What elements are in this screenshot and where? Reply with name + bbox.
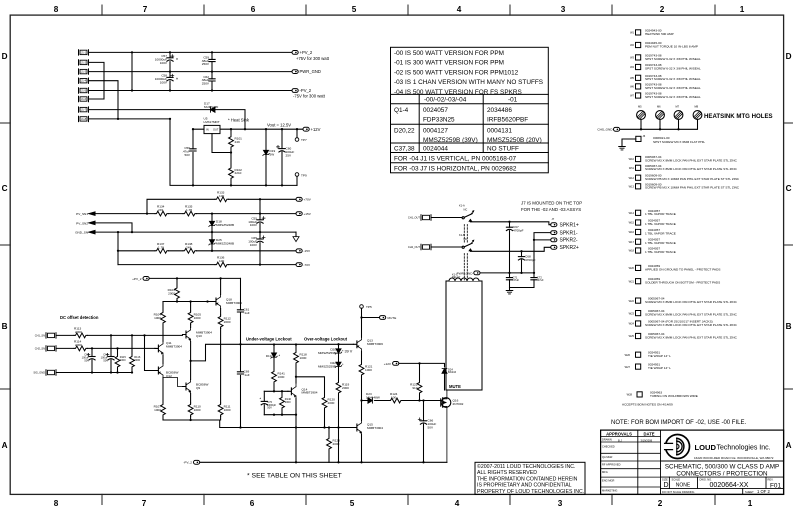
under-voltage sense line (192, 344, 354, 361)
svg-text:D: D (664, 482, 669, 489)
svg-text:PWR_GND: PWR_GND (300, 69, 321, 74)
svg-text:IS PROPRIETARY AND CONFIDENTIA: IS PROPRIETARY AND CONFIDENTIAL (477, 483, 572, 489)
svg-text:TP7: TP7 (301, 138, 307, 142)
svg-text:-03 IS 1 CHAN VERSION WITH MAN: -03 IS 1 CHAN VERSION WITH MANY NO STUFF… (394, 79, 543, 86)
svg-text:2: 2 (658, 499, 663, 508)
checkbox item W3 (636, 55, 641, 60)
test point TP9 (295, 173, 299, 177)
svg-text:SCREW PB M3 X 10MM PAN PHIL EX: SCREW PB M3 X 10MM PAN PHIL EXT STAR PLA… (645, 177, 740, 181)
svg-text:PWR_GND: PWR_GND (457, 271, 474, 275)
svg-text:.1uF: .1uF (244, 373, 250, 377)
svg-text:.1uF: .1uF (244, 311, 250, 315)
resistor R110 (190, 394, 192, 421)
svg-text:SCALE: SCALE (672, 477, 681, 481)
capacitor C64 (110, 335, 112, 372)
capacitor C59 (211, 52, 213, 71)
svg-text:8: 8 (54, 5, 59, 14)
checkbox item W11 (636, 165, 641, 170)
svg-text:SCREW M3 X 8MM LOCK PAN PHIL E: SCREW M3 X 8MM LOCK PAN PHIL EXT STAR PL… (645, 335, 738, 339)
svg-text:SIZE: SIZE (662, 477, 668, 481)
MOSFET Q16 (441, 398, 451, 408)
wire pin1 to +PV_2 (89, 51, 293, 53)
svg-text:1000: 1000 (278, 375, 285, 379)
svg-text:2000: 2000 (342, 386, 349, 390)
svg-text:MMSZ5259B: MMSZ5259B (318, 364, 336, 368)
checkbox item W16 (636, 229, 641, 234)
svg-text:RF APPROVED: RF APPROVED (602, 462, 621, 466)
negative rail (163, 420, 353, 428)
node SIG_GND input (46, 370, 56, 375)
svg-text:SCREW M3 X 8MM LOCK PAN PHIL E: SCREW M3 X 8MM LOCK PAN PHIL EXT STAR PL… (645, 167, 738, 171)
transistor Q15 (353, 421, 361, 435)
bias node (163, 301, 213, 303)
svg-text:ALL RIGHTS RESERVED: ALL RIGHTS RESERVED (477, 470, 537, 476)
resistor R115 (117, 348, 119, 372)
checkbox item W27 (636, 364, 641, 369)
wire Q14 base rail (264, 390, 288, 392)
svg-text:SIG_GND: SIG_GND (33, 371, 45, 375)
svg-text:C: C (786, 184, 792, 193)
wire U5 adj (212, 134, 231, 153)
wire diode to rail (215, 110, 245, 130)
wire left drop (117, 232, 119, 265)
relay contact K1-B (462, 246, 464, 248)
node -PV_2 (292, 89, 298, 93)
svg-text:M6: M6 (657, 105, 661, 109)
resistor R140 (281, 391, 283, 414)
connector J1 pin 2 (79, 60, 89, 65)
wire Q11-Q12 (162, 355, 164, 363)
svg-text:APPLIED ON GROUND TO PANEL - P: APPLIED ON GROUND TO PANEL - PROTECT PAD… (645, 267, 720, 271)
svg-text:CH1_SN: CH1_SN (35, 334, 45, 338)
checkbox item W5 (636, 75, 641, 80)
svg-text:250V: 250V (202, 62, 210, 66)
resistor R114 (56, 347, 155, 349)
node +PV connector (296, 197, 302, 201)
svg-text:SPKR1-: SPKR1- (560, 230, 578, 236)
resistor R121 (361, 351, 363, 400)
svg-text:MMBT3906: MMBT3906 (226, 301, 242, 305)
wire pin7 (89, 109, 211, 111)
svg-text:CHS_GND: CHS_GND (597, 128, 613, 132)
svg-text:W14: W14 (629, 211, 635, 215)
node SPKR1+ (551, 223, 557, 227)
svg-text:5: 5 (350, 499, 355, 508)
svg-text:1000: 1000 (154, 316, 161, 320)
svg-text:SPKR1+: SPKR1+ (560, 223, 579, 229)
transistor Q18 (213, 295, 221, 309)
connector J1 pin 6 (79, 96, 89, 101)
svg-text:DATE: DATE (643, 432, 654, 437)
checkbox item W1 (636, 30, 641, 35)
svg-text:-00/-02/-03/-04: -00/-02/-03/-04 (424, 97, 467, 104)
capacitor C71 (509, 273, 511, 288)
svg-text:4700pF: 4700pF (525, 258, 536, 262)
resistor R133 (215, 197, 228, 202)
wire pin5 to -PV_2 (89, 90, 293, 92)
svg-text:-70V: -70V (304, 263, 311, 267)
svg-text:RELAY: RELAY (452, 275, 461, 279)
svg-text:*: * (279, 354, 281, 359)
node -PV_2 bottom (194, 460, 200, 464)
resistor R120 (296, 377, 325, 428)
checkbox item W6 (636, 84, 641, 89)
svg-text:* Heat Sink: * Heat Sink (228, 118, 250, 123)
transistor Q10 (183, 328, 191, 342)
svg-text:1N4448W: 1N4448W (366, 395, 380, 399)
svg-text:250V: 250V (202, 82, 210, 86)
ground rail of regulator (170, 119, 297, 185)
svg-text:-01 IS 300 WATT VERSION FOR PP: -01 IS 300 WATT VERSION FOR PPM (394, 60, 504, 67)
connector J1 pin 3 (79, 69, 89, 74)
jumper J6 to chassis (636, 136, 641, 141)
transistor Q12 (155, 364, 163, 378)
svg-text:2000: 2000 (224, 320, 231, 324)
svg-text:1.78: 1.78 (186, 208, 192, 212)
svg-text:50V: 50V (428, 425, 434, 429)
svg-text:CH2_OUT: CH2_OUT (408, 245, 421, 249)
svg-text:W13: W13 (629, 185, 635, 189)
checkbox item W10 (636, 156, 641, 161)
zener D22 (338, 353, 340, 362)
wire sense row 1 (95, 213, 296, 215)
svg-text:MMBT3904: MMBT3904 (367, 426, 383, 430)
svg-text:W20: W20 (629, 266, 635, 270)
svg-text:5W: 5W (270, 152, 275, 156)
svg-text:2000: 2000 (285, 400, 291, 404)
12V rail (193, 128, 303, 130)
svg-text:5: 5 (352, 5, 357, 14)
svg-text:* SEE TABLE ON THIS SHEET: * SEE TABLE ON THIS SHEET (247, 473, 342, 480)
checkbox item W14 (636, 210, 641, 215)
node PWR_GND (292, 70, 298, 74)
svg-text:100: 100 (219, 194, 224, 198)
svg-text:0004131: 0004131 (487, 128, 512, 135)
resistor R105 (190, 302, 192, 380)
connector J1 pin 1 (79, 50, 89, 55)
svg-text:+12V: +12V (311, 127, 321, 132)
svg-text:25V: 25V (286, 153, 292, 157)
svg-text:SPST SCREW 6-32 X 3/8 PHIL W/S: SPST SCREW 6-32 X 3/8 PHIL W/SEAL (645, 66, 701, 70)
svg-text:+12V: +12V (384, 362, 392, 366)
zener D25 (211, 232, 213, 251)
resistor R103 (176, 278, 178, 301)
capacitor C63 (91, 348, 93, 372)
wire ground row (95, 231, 296, 233)
svg-text:*: * (176, 58, 178, 64)
svg-text:.47uF: .47uF (513, 278, 520, 282)
wire cap bus (259, 251, 261, 265)
transistor Q11 (155, 341, 163, 355)
checkbox item W20 (636, 265, 641, 270)
svg-text:D19: D19 (266, 354, 272, 358)
svg-text:SPST SCREW 6-32 X 3/8 PHIL W/S: SPST SCREW 6-32 X 3/8 PHIL W/SEAL (645, 77, 701, 81)
svg-text:W24: W24 (629, 322, 635, 326)
bottom supply rail (200, 461, 447, 463)
transistor Q9 (183, 380, 191, 394)
svg-text:-02 IS 500 WATT VERSION FOR PP: -02 IS 500 WATT VERSION FOR PPM1012 (394, 69, 519, 76)
svg-text:Technologies Inc.: Technologies Inc. (717, 445, 771, 452)
node junctions (131, 51, 133, 53)
node SPKR2+ (551, 245, 557, 249)
svg-text:W11: W11 (629, 166, 635, 170)
svg-text:Under-voltage Lockout: Under-voltage Lockout (246, 336, 292, 341)
svg-text:CH2_SN: CH2_SN (35, 347, 45, 351)
svg-text:SPST SCREW 6-32 X 3/8 PHIL W/S: SPST SCREW 6-32 X 3/8 PHIL W/SEAL (645, 95, 701, 99)
svg-text:MMBT3904: MMBT3904 (166, 344, 182, 348)
svg-text:TP5: TP5 (366, 305, 372, 309)
svg-text:0020664-XX: 0020664-XX (710, 482, 749, 489)
connector J1 pin 8 (79, 116, 89, 121)
svg-text:2N7002: 2N7002 (453, 402, 464, 406)
svg-text:+70V: +70V (304, 198, 312, 202)
capacitor C72 (533, 273, 535, 288)
resistor R113 (56, 334, 183, 336)
resistor R112 (220, 309, 222, 329)
svg-text:3/19/2008: 3/19/2008 (641, 438, 653, 442)
capacitor C58 (169, 72, 171, 91)
checkbox item W15 (636, 220, 641, 225)
capacitor C62 (211, 72, 213, 91)
wire caps to ground (510, 288, 535, 291)
svg-text:D: D (786, 52, 792, 61)
svg-text:J1-1: J1-1 (81, 50, 87, 54)
svg-text:MMSZ5259B: MMSZ5259B (318, 351, 336, 355)
node CH2_SNS input (46, 346, 56, 351)
svg-text:Q1-4: Q1-4 (394, 107, 409, 114)
capacitor C60 (281, 129, 283, 185)
wire lower rail (264, 414, 296, 416)
regulator U5 (204, 125, 220, 133)
svg-text:W23: W23 (629, 311, 635, 315)
svg-text:W2: W2 (630, 43, 634, 47)
svg-text:2000: 2000 (328, 401, 335, 405)
svg-text:K1-A: K1-A (459, 204, 465, 208)
svg-text:4: 4 (457, 5, 462, 14)
svg-text:100: 100 (391, 395, 396, 399)
svg-text:W4: W4 (630, 65, 634, 69)
mounting hole M6 (656, 111, 665, 120)
diode D24 flyback (442, 369, 447, 374)
svg-text:A: A (786, 441, 792, 450)
resistor R123 (328, 428, 330, 463)
svg-text:2000: 2000 (168, 291, 175, 295)
svg-text:1000: 1000 (300, 356, 307, 360)
svg-text:SHEET: SHEET (745, 490, 754, 494)
checkbox item W2 (636, 42, 641, 47)
svg-text:DC offset detection: DC offset detection (60, 315, 99, 320)
node CH1_SNS input (46, 333, 56, 338)
svg-text:-01: -01 (508, 97, 518, 104)
svg-text:* 39 V: * 39 V (342, 349, 353, 353)
wire to relay contact B (431, 246, 462, 248)
checkbox item W12 (636, 175, 641, 180)
svg-text:SPKR2+: SPKR2+ (560, 245, 579, 251)
svg-text:*: * (342, 363, 344, 367)
svg-text:2034486: 2034486 (487, 107, 512, 114)
wire contact B to SPKR2+ (470, 247, 550, 251)
svg-text:CONNECTORS / PROTECTION: CONNECTORS / PROTECTION (676, 470, 768, 477)
svg-text:W5: W5 (630, 76, 634, 80)
svg-text:©2007-2011 LOUD TECHNOLOGIES I: ©2007-2011 LOUD TECHNOLOGIES INC. (477, 463, 575, 470)
svg-text:SOLDER THROUGH ON BOTTOM - PRO: SOLDER THROUGH ON BOTTOM - PROTECT PADS (645, 281, 720, 285)
svg-text:TIE WRAP 14" L: TIE WRAP 14" L (648, 354, 671, 358)
svg-text:50V: 50V (84, 359, 89, 363)
svg-text:MMBT3904: MMBT3904 (302, 391, 318, 395)
wire pin2 jog to pin6 (89, 62, 105, 99)
svg-text:2000: 2000 (333, 442, 340, 446)
svg-text:-15V: -15V (304, 249, 311, 253)
svg-text:1000: 1000 (154, 408, 161, 412)
svg-text:W3: W3 (630, 56, 634, 60)
svg-text:FOR -04 J1 IS VERTICAL, PN 000: FOR -04 J1 IS VERTICAL, PN 0005168-07 (394, 156, 517, 163)
svg-text:J1-3: J1-3 (81, 70, 87, 74)
wire pin1-pin5 vertical (131, 52, 133, 90)
svg-text:PEM NUT TORQUE 10 IN-LBS 8 AMP: PEM NUT TORQUE 10 IN-LBS 8 AMP (645, 44, 698, 48)
svg-text:NO STUFF: NO STUFF (487, 146, 519, 153)
svg-text:FOR THE -02 AND -03 ASSYS: FOR THE -02 AND -03 ASSYS (521, 207, 581, 212)
node CH2_OUT (421, 244, 431, 249)
test point TP7 (296, 129, 298, 138)
svg-text:MFG: MFG (602, 470, 608, 474)
svg-text:W17: W17 (629, 240, 635, 244)
svg-text:+PV_2: +PV_2 (300, 50, 313, 55)
svg-text:50V: 50V (103, 359, 108, 363)
svg-text:HEATSINK 500 AMP: HEATSINK 500 AMP (645, 32, 674, 36)
diode D17 (211, 107, 215, 112)
svg-text:PROPERTY OF LOUD TECHNOLOGIES: PROPERTY OF LOUD TECHNOLOGIES INC. (477, 489, 584, 495)
capacitor C61 (240, 278, 242, 344)
note J7 mounting (521, 201, 582, 212)
svg-text:TP9: TP9 (301, 174, 307, 178)
resistor R107 (162, 378, 164, 421)
svg-text:.47uF: .47uF (537, 278, 544, 282)
svg-text:SPST SCREW M3 X 6MM FLAT PHIL: SPST SCREW M3 X 6MM FLAT PHIL (653, 140, 705, 144)
zener D18 (211, 214, 213, 233)
checkbox item W17 (636, 239, 641, 244)
svg-text:NONE: NONE (676, 482, 691, 488)
svg-text:2000: 2000 (75, 343, 82, 347)
svg-text:MARKETING: MARKETING (602, 488, 617, 492)
svg-text:M8: M8 (695, 105, 699, 109)
svg-text:1000: 1000 (365, 368, 372, 372)
svg-text:J1-6: J1-6 (81, 97, 87, 101)
svg-text:FDP33N25: FDP33N25 (423, 117, 455, 124)
svg-text:B: B (786, 322, 792, 331)
resistor R135 (183, 211, 196, 216)
svg-text:W10: W10 (629, 157, 635, 161)
svg-text:1: 1 (748, 499, 753, 508)
resistor R137 (155, 248, 168, 253)
checkbox item W25 (636, 333, 641, 338)
svg-text:2000: 2000 (120, 358, 126, 362)
connector J1 pin 5 (79, 88, 89, 93)
node CH1_OUT (421, 215, 431, 220)
capacitor C59b (240, 344, 242, 427)
svg-text:1.78: 1.78 (158, 245, 164, 249)
svg-text:MMSZ5248B: MMSZ5248B (216, 241, 234, 245)
resistor R124 (375, 400, 420, 402)
svg-text:249: 249 (235, 140, 240, 144)
svg-text:M7: M7 (676, 105, 680, 109)
svg-text:NC: NC (464, 208, 468, 212)
node CH1_INA arrow (89, 212, 95, 215)
svg-text:1000: 1000 (194, 316, 201, 320)
svg-text:Vout = 12.5V: Vout = 12.5V (267, 122, 291, 127)
svg-text:0024057: 0024057 (423, 107, 448, 114)
resistor R102 (230, 153, 232, 186)
svg-text:50V: 50V (267, 406, 272, 410)
svg-text:1 TBL VAPOR TRACE: 1 TBL VAPOR TRACE (645, 222, 676, 226)
svg-text:B: B (2, 322, 8, 331)
svg-text:1 TBL VAPOR TRACE: 1 TBL VAPOR TRACE (645, 212, 676, 216)
svg-text:LOUD: LOUD (695, 443, 717, 452)
svg-text:TUBING ON WOLFBROWN WIRE: TUBING ON WOLFBROWN WIRE (650, 394, 698, 398)
svg-text:MURS120: MURS120 (204, 105, 219, 109)
svg-text:Over-voltage Lockout: Over-voltage Lockout (304, 336, 348, 341)
chassis ground (619, 147, 626, 150)
svg-text:4: 4 (455, 499, 460, 508)
svg-text:Q10: Q10 (196, 334, 202, 338)
zener D21 (265, 129, 267, 185)
checkbox item W7 (636, 93, 641, 98)
node +12V in (393, 362, 399, 366)
svg-text:SCREW M3 X 8MM LOCK PAN PHIL E: SCREW M3 X 8MM LOCK PAN PHIL EXT STAR PL… (645, 300, 738, 304)
svg-text:3: 3 (561, 5, 566, 14)
svg-text:+15V: +15V (304, 212, 312, 216)
svg-text:HEATSINK MTG HOLES: HEATSINK MTG HOLES (704, 113, 773, 120)
relay K1 coil box (446, 281, 482, 390)
node -PV connector (296, 263, 302, 267)
svg-text:*: * (260, 396, 262, 401)
svg-text:CHECKED: CHECKED (602, 444, 615, 448)
zener D19 (273, 345, 275, 371)
LOUD logo (664, 435, 690, 459)
svg-text:MUTE: MUTE (449, 384, 461, 389)
svg-text:SCREW M3 X 8MM LOCK PAN PHIL E: SCREW M3 X 8MM LOCK PAN PHIL EXT STAR PL… (645, 313, 738, 317)
svg-text:MMSZ5248B: MMSZ5248B (216, 223, 234, 227)
connector J1 pin 4 (79, 78, 89, 83)
svg-text:GND_SN: GND_SN (75, 231, 88, 235)
resistor R138 (183, 248, 196, 253)
ground (506, 291, 513, 294)
zener D20 (338, 344, 340, 349)
relay mech link dashed (464, 225, 467, 281)
svg-text:7: 7 (143, 5, 148, 14)
relay contact K1-A (462, 217, 464, 219)
svg-text:Q9: Q9 (196, 386, 200, 390)
node GND_SNS arrow (89, 230, 95, 233)
svg-text:3: 3 (558, 499, 563, 508)
svg-text:IRFB5620PBF: IRFB5620PBF (487, 117, 528, 124)
checkbox item W18 (636, 248, 641, 253)
svg-text:PV_SN1: PV_SN1 (76, 212, 88, 216)
svg-text:-PV_2: -PV_2 (300, 88, 312, 93)
svg-text:W26: W26 (625, 353, 631, 357)
svg-text:NOTE: FOR BOM IMPORT OF -02, U: NOTE: FOR BOM IMPORT OF -02, USE -00 FIL… (611, 420, 746, 426)
svg-text:DRAWN: DRAWN (602, 437, 612, 441)
svg-text:J6: J6 (643, 134, 646, 138)
transistor Q13 (353, 337, 361, 351)
svg-text:4700pF: 4700pF (513, 228, 524, 232)
svg-text:W15: W15 (629, 221, 635, 225)
svg-text:-00 IS 500 WATT VERSION FOR PP: -00 IS 500 WATT VERSION FOR PPM (394, 50, 504, 57)
resistor R118 (295, 345, 297, 384)
svg-text:W6: W6 (630, 85, 634, 89)
svg-text:910: 910 (412, 386, 417, 390)
svg-text:W27: W27 (625, 365, 631, 369)
wire sense row 2 jog (95, 223, 132, 232)
